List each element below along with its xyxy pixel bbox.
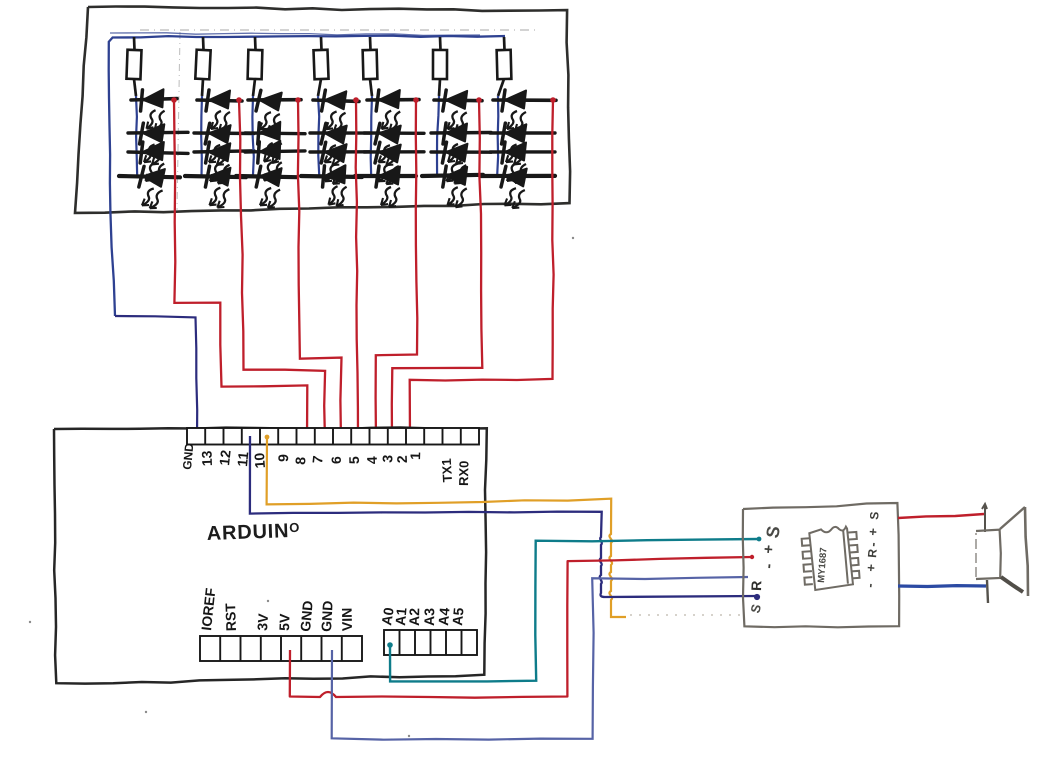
wire: row bar col1 row1 bbox=[131, 99, 177, 100]
wire: column 5 cathode rail bbox=[371, 96, 372, 177]
Arduino board outline bbox=[54, 428, 487, 684]
LED D43 bbox=[320, 142, 347, 185]
wire: row bar col7 row2 bbox=[490, 131, 555, 134]
wire: row bar col2 row4 bbox=[185, 176, 246, 177]
junction dot col5 anode/red bbox=[413, 97, 419, 103]
LED D33 bbox=[256, 140, 283, 183]
LED D34 bbox=[255, 166, 282, 209]
LED D52 bbox=[373, 123, 400, 166]
svg-text:4: 4 bbox=[364, 456, 380, 465]
LED D32 bbox=[256, 121, 283, 164]
wire: row bar col4 row4 bbox=[301, 176, 362, 177]
svg-text:GND: GND bbox=[318, 600, 336, 632]
wire: column 6 cathode rail bbox=[437, 96, 439, 177]
LED D62 bbox=[443, 123, 467, 164]
wire: red LED column 6 to Arduino pin 3 bbox=[392, 100, 483, 441]
wire: column 7 cathode rail bbox=[497, 96, 498, 177]
LED D73 bbox=[502, 142, 526, 183]
svg-text:7: 7 bbox=[309, 455, 326, 465]
wire: row bar col6 row4 bbox=[422, 175, 483, 176]
junction dot col7 anode/red bbox=[550, 97, 556, 103]
speaker - terminal bbox=[987, 580, 988, 603]
wire: row bar col4 row3 bbox=[310, 150, 370, 154]
wire: orange pin10 to module S (bottom) bbox=[267, 437, 626, 617]
wire: slate blue GND to module - bbox=[332, 577, 748, 740]
svg-text:MY1687: MY1687 bbox=[816, 547, 829, 583]
wire: row bar col1 row4 bbox=[119, 176, 180, 177]
LED D22 bbox=[204, 123, 231, 166]
LED D74 bbox=[499, 166, 526, 209]
svg-text:S: S bbox=[747, 602, 764, 615]
wire: row bar col6 row1 bbox=[434, 98, 482, 102]
LED D31 bbox=[254, 90, 281, 133]
wire: row bar col3 row3 bbox=[245, 151, 305, 152]
LED D51 bbox=[376, 90, 401, 131]
svg-text:3V: 3V bbox=[254, 612, 271, 631]
wire: row bar col6 row3 bbox=[431, 150, 491, 154]
IC chip on module bbox=[801, 525, 860, 590]
LED D71 bbox=[502, 90, 526, 131]
wire: row bar col3 row4 bbox=[236, 176, 297, 177]
wire: blue module to speaker - bbox=[898, 584, 986, 588]
svg-text:RST: RST bbox=[222, 602, 239, 631]
svg-text:IOREF: IOREF bbox=[198, 587, 218, 632]
LED D53 bbox=[373, 142, 400, 185]
Arduino digital pin header bbox=[187, 428, 479, 445]
svg-text:GND: GND bbox=[297, 600, 316, 632]
svg-text:RX0: RX0 bbox=[456, 460, 471, 486]
LED D41 bbox=[321, 90, 346, 132]
LED D54 bbox=[376, 166, 400, 207]
resistor R7 bbox=[497, 37, 512, 96]
wire: blue bus to Arduino GND pin bbox=[115, 316, 197, 440]
resistor R4 bbox=[313, 37, 328, 96]
LED panel enclosure box bbox=[75, 7, 570, 213]
junction dot col2 anode/red bbox=[236, 97, 242, 103]
wire: row bar col3 row1 bbox=[248, 98, 301, 102]
wire: blue top supply bus bbox=[109, 36, 505, 316]
wire: row bar col7 row1 bbox=[493, 98, 556, 102]
faint vertical crease line bbox=[177, 32, 180, 210]
svg-text:-: - bbox=[862, 583, 877, 589]
wire: row bar col3 row2 bbox=[245, 131, 305, 135]
svg-text:ARDUINO: ARDUINO bbox=[206, 520, 300, 545]
svg-text:6: 6 bbox=[328, 456, 344, 464]
svg-text:12: 12 bbox=[216, 449, 234, 466]
svg-text:9: 9 bbox=[275, 454, 291, 462]
wire: column 3 cathode rail bbox=[252, 96, 253, 177]
wire: red LED column 3 to Arduino pin 6 bbox=[298, 100, 342, 441]
wire: red LED column 2 to Arduino pin 7 bbox=[239, 100, 325, 441]
wire: column 4 cathode rail bbox=[318, 96, 319, 177]
wire: row bar col7 row3 bbox=[490, 150, 555, 154]
resistor R1 bbox=[126, 37, 141, 96]
svg-text:R: R bbox=[865, 548, 880, 558]
junction dot col4 anode/red bbox=[353, 97, 359, 103]
svg-text:-: - bbox=[865, 542, 880, 548]
wire: row bar col5 row1 bbox=[367, 98, 419, 102]
faint guide dash-dot line bbox=[140, 29, 535, 31]
wire: row bar col5 row2 bbox=[364, 131, 424, 135]
svg-text:5V: 5V bbox=[276, 613, 293, 631]
wire: navy pin11 to module R bbox=[250, 436, 757, 597]
LED D42 bbox=[319, 123, 346, 166]
junction dot col6 anode/red bbox=[476, 97, 482, 103]
svg-text:A5: A5 bbox=[449, 607, 467, 626]
LED D23 bbox=[205, 142, 230, 184]
resistor R6 bbox=[433, 37, 447, 96]
wire: row bar col7 row4 bbox=[481, 174, 555, 178]
wire: row bar col6 row2 bbox=[431, 131, 491, 135]
LED D21 bbox=[206, 90, 230, 131]
wire: row bar col2 row2 bbox=[194, 131, 254, 135]
svg-text:+: + bbox=[760, 544, 778, 554]
MP3 player module board bbox=[743, 503, 899, 627]
LED D13 bbox=[140, 142, 165, 183]
svg-text:GND: GND bbox=[180, 442, 196, 470]
svg-text:R: R bbox=[748, 580, 764, 591]
LED D24 bbox=[204, 166, 230, 208]
junction dot col1 anode/red bbox=[171, 97, 177, 103]
LED D12 bbox=[139, 123, 164, 165]
LED D63 bbox=[441, 142, 467, 184]
LED D11 bbox=[139, 89, 165, 131]
LED D72 bbox=[501, 123, 526, 165]
junction dot col3 anode/red bbox=[295, 97, 301, 103]
svg-text:1: 1 bbox=[407, 452, 423, 461]
wire: teal A0 to module S (top) bbox=[390, 539, 759, 681]
wire: row bar col1 row2 bbox=[128, 131, 188, 135]
LED D61 bbox=[442, 90, 467, 131]
wire: red module to speaker + bbox=[898, 514, 984, 518]
resistor R3 bbox=[248, 37, 263, 96]
resistor R2 bbox=[195, 37, 210, 96]
wire: column 2 cathode rail bbox=[200, 96, 203, 177]
speaker cone bbox=[1000, 507, 1025, 529]
svg-text:+: + bbox=[865, 527, 881, 536]
LED D14 bbox=[137, 166, 165, 209]
svg-text:5: 5 bbox=[346, 456, 362, 464]
svg-text:A2: A2 bbox=[406, 608, 422, 626]
svg-text:TX1: TX1 bbox=[439, 458, 455, 483]
svg-text:8: 8 bbox=[292, 456, 309, 465]
wire: red LED column 4 to Arduino pin 5 bbox=[356, 100, 358, 441]
wire: row bar col5 row3 bbox=[364, 150, 424, 154]
wire: row bar col2 row3 bbox=[194, 151, 254, 152]
wire: row bar col2 row1 bbox=[197, 100, 242, 101]
Arduino analog pin header bbox=[384, 630, 477, 655]
svg-text:13: 13 bbox=[198, 450, 215, 466]
Arduino power pin header bbox=[200, 636, 362, 661]
wire: red 5V to module + bbox=[290, 557, 752, 698]
resistor R5 bbox=[363, 37, 378, 96]
wire: red LED column 5 to Arduino pin 4 bbox=[376, 100, 418, 441]
svg-text:11: 11 bbox=[234, 451, 251, 467]
svg-text:S: S bbox=[867, 511, 882, 520]
wire: row bar col4 row1 bbox=[313, 100, 359, 101]
wire: column 1 cathode rail bbox=[136, 96, 137, 177]
svg-text:-: - bbox=[760, 563, 777, 569]
wire: row bar col4 row2 bbox=[310, 131, 370, 135]
LED D64 bbox=[442, 166, 467, 207]
wire: row bar col1 row3 bbox=[128, 152, 188, 153]
LED D44 bbox=[321, 165, 347, 207]
svg-text:S: S bbox=[762, 524, 784, 539]
wire: red LED column 1 to Arduino pin 8 bbox=[174, 100, 307, 441]
speaker driver body bbox=[976, 530, 1001, 579]
svg-text:+: + bbox=[863, 563, 879, 572]
svg-text:10: 10 bbox=[251, 452, 268, 469]
wire: red LED column 7 to Arduino pin 2 bbox=[410, 100, 554, 441]
speaker + terminal bbox=[982, 504, 987, 532]
svg-text:VIN: VIN bbox=[339, 608, 355, 632]
wire: row bar col5 row4 bbox=[355, 174, 416, 178]
